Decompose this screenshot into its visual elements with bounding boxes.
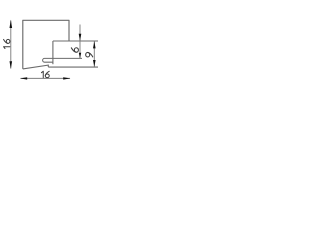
dimension 16 bottom: label "16" — [41, 71, 49, 77]
slot (screw channel) with rounded left end — [43, 58, 53, 62]
dimension 6: lower arrowhead (tip at y=58.4) — [79, 53, 81, 59]
bottom extension line (y=67) — [48, 66, 98, 68]
dimension 9: line — [93, 41, 95, 66]
dimension 16 bottom: left arrowhead — [20, 77, 27, 79]
sloped bottom edge with lip — [23, 65, 49, 69]
dimension 9: bottom arrowhead (tip at y=66.9, pointing down) — [93, 60, 96, 67]
dimension 16 left: bottom arrowhead — [10, 61, 13, 69]
step vertical edge x=52.9 — [52, 41, 54, 64]
step edge with extension line (y=41) — [53, 40, 98, 42]
slot top extension line to 6-dim — [53, 57, 82, 59]
dimension 16 left: top arrowhead — [10, 20, 13, 28]
dimension 6: label "6" rotated — [71, 48, 78, 52]
dimension 9: label "9" rotated — [86, 52, 93, 56]
dimension 16 left: label "16" rotated — [4, 39, 10, 48]
dimension 9: top arrowhead (tip at y=41.2, pointing up) — [93, 41, 96, 48]
dimension 6: line — [79, 25, 81, 59]
profile outline: left edge, top edge, right edge — [23, 20, 69, 69]
dimension 16 left: line — [10, 21, 12, 69]
dimension 16 bottom: right arrowhead — [63, 77, 70, 79]
dimension 16 bottom: line — [21, 77, 71, 79]
dimension 6: upper arrowhead (tip at y=41) — [79, 34, 82, 41]
